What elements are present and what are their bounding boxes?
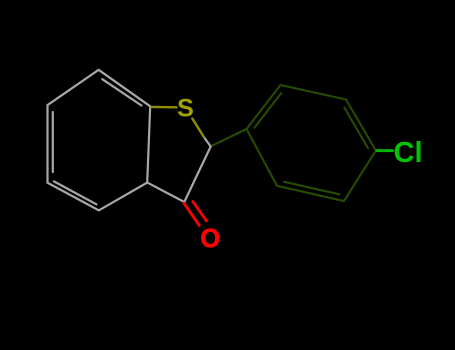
svg-text:O: O (200, 225, 220, 253)
svg-text:S: S (177, 95, 194, 123)
svg-text:Cl: Cl (394, 137, 423, 169)
